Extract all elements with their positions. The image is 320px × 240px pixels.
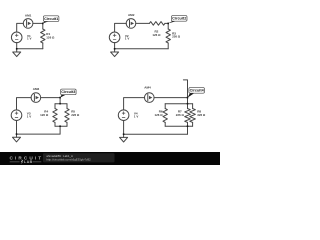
svg-text:Circuit3: Circuit3	[61, 90, 75, 94]
node ground junction C4	[123, 133, 125, 135]
wire AM4 to node D	[154, 97, 188, 99]
wire node D to top rail C4	[187, 98, 189, 104]
svg-text:Circuit4: Circuit4	[190, 89, 205, 93]
wire V2 bottom	[114, 43, 116, 49]
svg-text:1 V: 1 V	[27, 37, 31, 41]
svg-text:Circuit2: Circuit2	[172, 17, 186, 21]
ground C1	[16, 49, 18, 52]
flag label Circuit1	[43, 21, 49, 23]
svg-text:Circuit1: Circuit1	[44, 17, 58, 21]
svg-text:http://circuitlab.com/c6gE35gf: http://circuitlab.com/c6gE35gfv7d92	[46, 157, 91, 161]
svg-text:126 Ω: 126 Ω	[155, 113, 164, 117]
flag label Circuit4	[188, 93, 195, 98]
svg-text:AM1: AM1	[25, 14, 32, 18]
ammeter AM1	[23, 19, 33, 29]
svg-text:226 Ω: 226 Ω	[71, 113, 80, 117]
wire V4 top to AM4	[124, 98, 145, 110]
logo lightning bolt	[21, 160, 24, 164]
flag label Circuit3	[60, 94, 66, 97]
voltage source V3	[11, 110, 22, 121]
node bottom rail junction C3	[59, 125, 61, 127]
svg-text:AM3: AM3	[33, 87, 40, 91]
svg-text:126 Ω: 126 Ω	[40, 113, 49, 117]
resistor R3	[167, 23, 169, 29]
svg-text:1 V: 1 V	[134, 115, 138, 119]
logo underline right	[33, 161, 42, 163]
svg-text:1 V: 1 V	[27, 115, 31, 119]
wire stub C4 bottom	[187, 126, 189, 134]
ground C4	[123, 134, 125, 137]
wire AM3 to node C	[41, 98, 61, 104]
wire V1 bottom	[16, 43, 18, 49]
wire V1 top to AM1	[17, 23, 24, 32]
wire V3 top to AM3	[17, 98, 32, 110]
svg-text:326 Ω: 326 Ω	[197, 113, 206, 117]
ammeter AM4	[145, 93, 155, 103]
ammeter AM3	[31, 93, 41, 103]
wire dangling stub C4	[183, 80, 187, 98]
resistor R6	[164, 104, 166, 109]
wire top rail C4	[165, 103, 192, 105]
node top rail junction C4	[187, 103, 189, 105]
svg-text:226 Ω: 226 Ω	[176, 113, 185, 117]
resistor R2	[149, 22, 165, 26]
ground C2	[114, 49, 116, 52]
wire V4 bottom	[123, 120, 125, 134]
footer bar	[0, 152, 220, 165]
wire bottom C4	[124, 133, 188, 135]
flag label Circuit2	[168, 21, 177, 24]
wire bottom rail C4	[165, 125, 192, 127]
node ground junction C3	[16, 133, 18, 135]
svg-text:AM4: AM4	[144, 86, 151, 90]
wire bottom rail C3	[55, 125, 67, 127]
resistor R7	[187, 104, 189, 109]
svg-text:126 Ω: 126 Ω	[152, 33, 161, 37]
resistor R8	[192, 104, 194, 109]
wire bottom rail C2	[115, 48, 169, 50]
wire AM1 to node A	[33, 22, 43, 24]
svg-text:AM2: AM2	[128, 13, 135, 17]
wire V3 bottom	[16, 120, 18, 134]
node ground junction C2	[114, 48, 116, 50]
wire bottom rail C1	[17, 48, 43, 50]
node bottom rail junction C4	[187, 125, 189, 127]
wire bottom C3	[17, 133, 61, 135]
wire top rail C3	[55, 103, 67, 105]
voltage source V2	[109, 32, 120, 43]
wire stub C3 bottom	[59, 126, 61, 134]
svg-text:126 Ω: 126 Ω	[46, 35, 55, 39]
svg-text:1 V: 1 V	[125, 37, 129, 41]
node ground junction C1	[16, 48, 18, 50]
node top rail junction C3	[59, 103, 61, 105]
svg-text:LAB: LAB	[24, 160, 33, 164]
node D junction	[187, 97, 189, 99]
node A junction	[42, 23, 44, 25]
wire V2 top to AM2	[115, 23, 127, 32]
footer highlight block	[43, 153, 115, 162]
wire R2 to node B	[165, 22, 168, 24]
svg-text:226 Ω: 226 Ω	[172, 34, 181, 38]
voltage source V1	[11, 32, 22, 43]
resistor R5	[66, 104, 68, 109]
voltage source V4	[118, 110, 129, 121]
node C junction	[59, 97, 61, 99]
node B junction	[167, 23, 169, 25]
ammeter AM2	[126, 19, 136, 29]
logo underline left	[10, 161, 20, 163]
resistor R4	[54, 104, 56, 109]
wire AM2 to R2	[136, 22, 150, 24]
ground C3	[16, 134, 18, 137]
resistor R1	[42, 23, 44, 29]
